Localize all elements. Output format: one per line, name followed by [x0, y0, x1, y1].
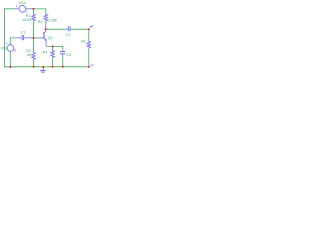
wire: R4 top lead	[52, 46, 54, 50]
svg-text:VCC: VCC	[19, 1, 27, 5]
svg-text:18.0k: 18.0k	[22, 18, 31, 22]
resistor R4	[51, 51, 55, 58]
wire: VG1 top lead and input wire	[10, 38, 16, 45]
capacitor C3 plates	[60, 52, 66, 54]
svg-text:C1: C1	[21, 30, 26, 34]
junction top node	[33, 8, 35, 10]
voltage generator VG1	[7, 45, 14, 52]
VG1 minus mark	[14, 49, 16, 52]
junction collector node	[45, 28, 47, 30]
wire: VCC left pin (blue)	[15, 8, 19, 10]
junction base node	[33, 37, 35, 39]
wire: R3 bottom lead	[45, 21, 47, 25]
svg-text:1.38k: 1.38k	[48, 18, 57, 22]
svg-text:C2: C2	[66, 33, 71, 37]
wire: emitter node wire to C3 corner	[46, 46, 63, 51]
wire: C3 bottom lead to ground rail	[62, 56, 64, 67]
svg-text:1k: 1k	[90, 63, 94, 67]
capacitor C2 plates	[69, 26, 71, 31]
wire: RL bottom lead	[88, 48, 90, 67]
transistor Q1 collector pin (blue)	[44, 25, 45, 33]
VCC plus mark	[16, 5, 18, 7]
wire: C2 to output node and RL top lead	[72, 29, 89, 41]
wire: R1 top lead	[33, 9, 35, 14]
resistor RL	[87, 41, 91, 48]
junction RL-ground corner	[88, 66, 90, 68]
capacitor C2 left pin (blue)	[66, 28, 68, 30]
resistor R2	[32, 53, 36, 60]
svg-text:4k: 4k	[27, 53, 31, 57]
capacitor C1 right pin to base node (blue)	[24, 37, 33, 39]
wire: VCC left lead + left rail + bottom ground rail	[4, 9, 88, 67]
svg-text:C3: C3	[67, 53, 72, 57]
wire: collector node to C2	[46, 28, 66, 30]
svg-text:R3: R3	[38, 20, 43, 24]
wire: VG1 bottom lead to ground rail	[9, 52, 11, 67]
transistor Q1 emitter pin (blue)	[44, 38, 46, 46]
junction VG1-ground	[9, 66, 11, 68]
wire: top rail to R3 drop	[34, 9, 46, 14]
transistor Q1 base bar	[43, 32, 45, 39]
voltage source VCC	[19, 5, 26, 12]
wire: R2 top lead	[33, 38, 35, 53]
capacitor C1 plates	[22, 35, 23, 40]
wire: base node to transistor	[34, 37, 40, 39]
output voltage pin arrow	[91, 25, 93, 27]
capacitor C2 right pin (blue)	[71, 28, 73, 30]
wire: VCC right lead to top node	[30, 8, 33, 10]
capacitor C1 left pin (blue)	[16, 37, 21, 39]
transistor Q1 base pin (blue)	[40, 37, 44, 39]
svg-text:VG1: VG1	[1, 47, 8, 51]
svg-text:Q1: Q1	[48, 36, 53, 40]
junction ground-symbol node	[42, 66, 44, 68]
wire: R4 bottom lead	[52, 57, 54, 67]
wire: R1 bottom lead to base node	[33, 21, 35, 38]
resistor R3	[44, 14, 48, 21]
junction C3-ground	[62, 66, 64, 68]
junction R2-ground	[33, 66, 35, 68]
transistor Q1 emitter arrowhead	[44, 38, 46, 40]
VCC minus mark	[26, 11, 28, 13]
junction emitter node	[52, 45, 54, 47]
VG1 plus mark	[6, 43, 7, 44]
wire: VCC right pin (blue)	[26, 8, 31, 10]
capacitor C3 bottom pin (blue)	[62, 54, 64, 56]
svg-text:RL: RL	[81, 40, 86, 44]
resistor R1	[32, 14, 36, 21]
wire: R2 bottom lead	[33, 59, 35, 67]
junction R4-ground	[52, 66, 54, 68]
svg-text:R4: R4	[43, 50, 48, 54]
junction output node	[88, 28, 90, 30]
ground	[42, 67, 44, 70]
